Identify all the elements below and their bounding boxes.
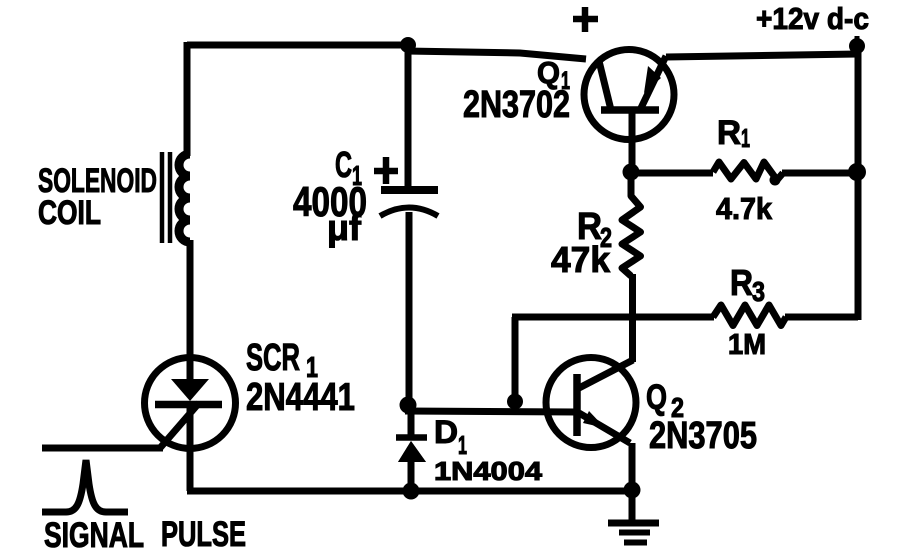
plus sign above Q1: [573, 7, 598, 32]
svg-text:3: 3: [752, 276, 765, 307]
SCR1 2N4441: [145, 355, 236, 452]
svg-text:COIL: COIL: [38, 194, 101, 232]
C1 polarity plus: [374, 157, 398, 184]
wire left vertical from top rail to solenoid: [184, 42, 191, 156]
node Q2 emitter bottom rail dot: [624, 482, 641, 499]
SCR1 gate lead: [160, 403, 199, 448]
wire SCR gate horizontal: [42, 445, 163, 452]
wire Q2-base-node horizontal to R3: [512, 314, 714, 321]
node +12v corner dot: [849, 38, 865, 54]
wire Q2 emitter node to ground: [629, 491, 636, 521]
transistor Q1: [584, 50, 674, 140]
svg-text:SIGNAL: SIGNAL: [44, 516, 144, 555]
svg-text:R: R: [730, 262, 753, 303]
node B junction dot (stub to R3 line): [507, 394, 523, 410]
wire bottom rail: [187, 488, 633, 495]
wire SCR cathode to bottom rail: [187, 448, 194, 491]
wire Q1 to +12v corner: [666, 54, 858, 57]
wire D1 anode to bottom rail: [408, 460, 415, 491]
svg-text:R: R: [717, 114, 741, 152]
node Q1 base / R1 / R2 junction dot: [623, 164, 640, 181]
node D1 anode to bottom rail dot: [403, 483, 420, 500]
wire +12v terminal stub: [855, 36, 860, 48]
svg-text:μf: μf: [327, 207, 362, 248]
svg-text:SCR: SCR: [246, 337, 300, 379]
node R1 right rail dot: [848, 163, 866, 181]
diode D1: [396, 406, 427, 462]
resistor R3: [713, 305, 786, 326]
wire Q1 base lead down to node: [629, 112, 636, 172]
svg-text:2N4441: 2N4441: [246, 376, 355, 419]
wire node A to Q2 base: [405, 411, 576, 412]
node A junction dot (C1/D1/Q2 base): [400, 397, 417, 414]
svg-text:2N3702: 2N3702: [463, 84, 570, 126]
svg-text:+12v d-c: +12v d-c: [756, 1, 869, 36]
wire R1 right end to right rail: [782, 170, 858, 177]
svg-text:PULSE: PULSE: [161, 515, 246, 554]
ground: [608, 523, 659, 543]
svg-text:1N4004: 1N4004: [434, 456, 543, 486]
svg-text:1M: 1M: [728, 329, 766, 361]
resistor R1: [713, 162, 783, 180]
svg-text:4.7k: 4.7k: [716, 191, 773, 226]
wire top rail left of Q1: [406, 51, 586, 59]
svg-text:Q: Q: [646, 378, 667, 417]
wire top-left rail: [187, 42, 408, 49]
signal pulse waveform: [42, 460, 128, 512]
svg-text:2N3705: 2N3705: [649, 415, 757, 457]
wire Q2 emitter down to bottom rail: [629, 443, 636, 493]
wire right rail vertical: [855, 51, 862, 320]
svg-text:1: 1: [741, 123, 750, 153]
node top junction dot: [400, 37, 416, 53]
wire solenoid bottom to SCR anode: [187, 240, 194, 358]
wire R2 bottom through crossing to Q2 collector: [629, 274, 636, 362]
transistor Q2: [546, 358, 636, 448]
capacitor C1: [380, 190, 438, 216]
solenoid coil: [162, 152, 190, 243]
resistor R2: [622, 178, 641, 276]
svg-text:D: D: [434, 414, 458, 450]
wire R3 right to right rail corner: [785, 314, 858, 321]
wire C1 bottom to node A: [406, 212, 413, 406]
wire top rail junction down to C1: [405, 45, 412, 189]
wire node B stub up to R3 line: [512, 317, 519, 406]
wire Q1 node to R1: [628, 170, 713, 177]
svg-text:47k: 47k: [551, 239, 611, 280]
